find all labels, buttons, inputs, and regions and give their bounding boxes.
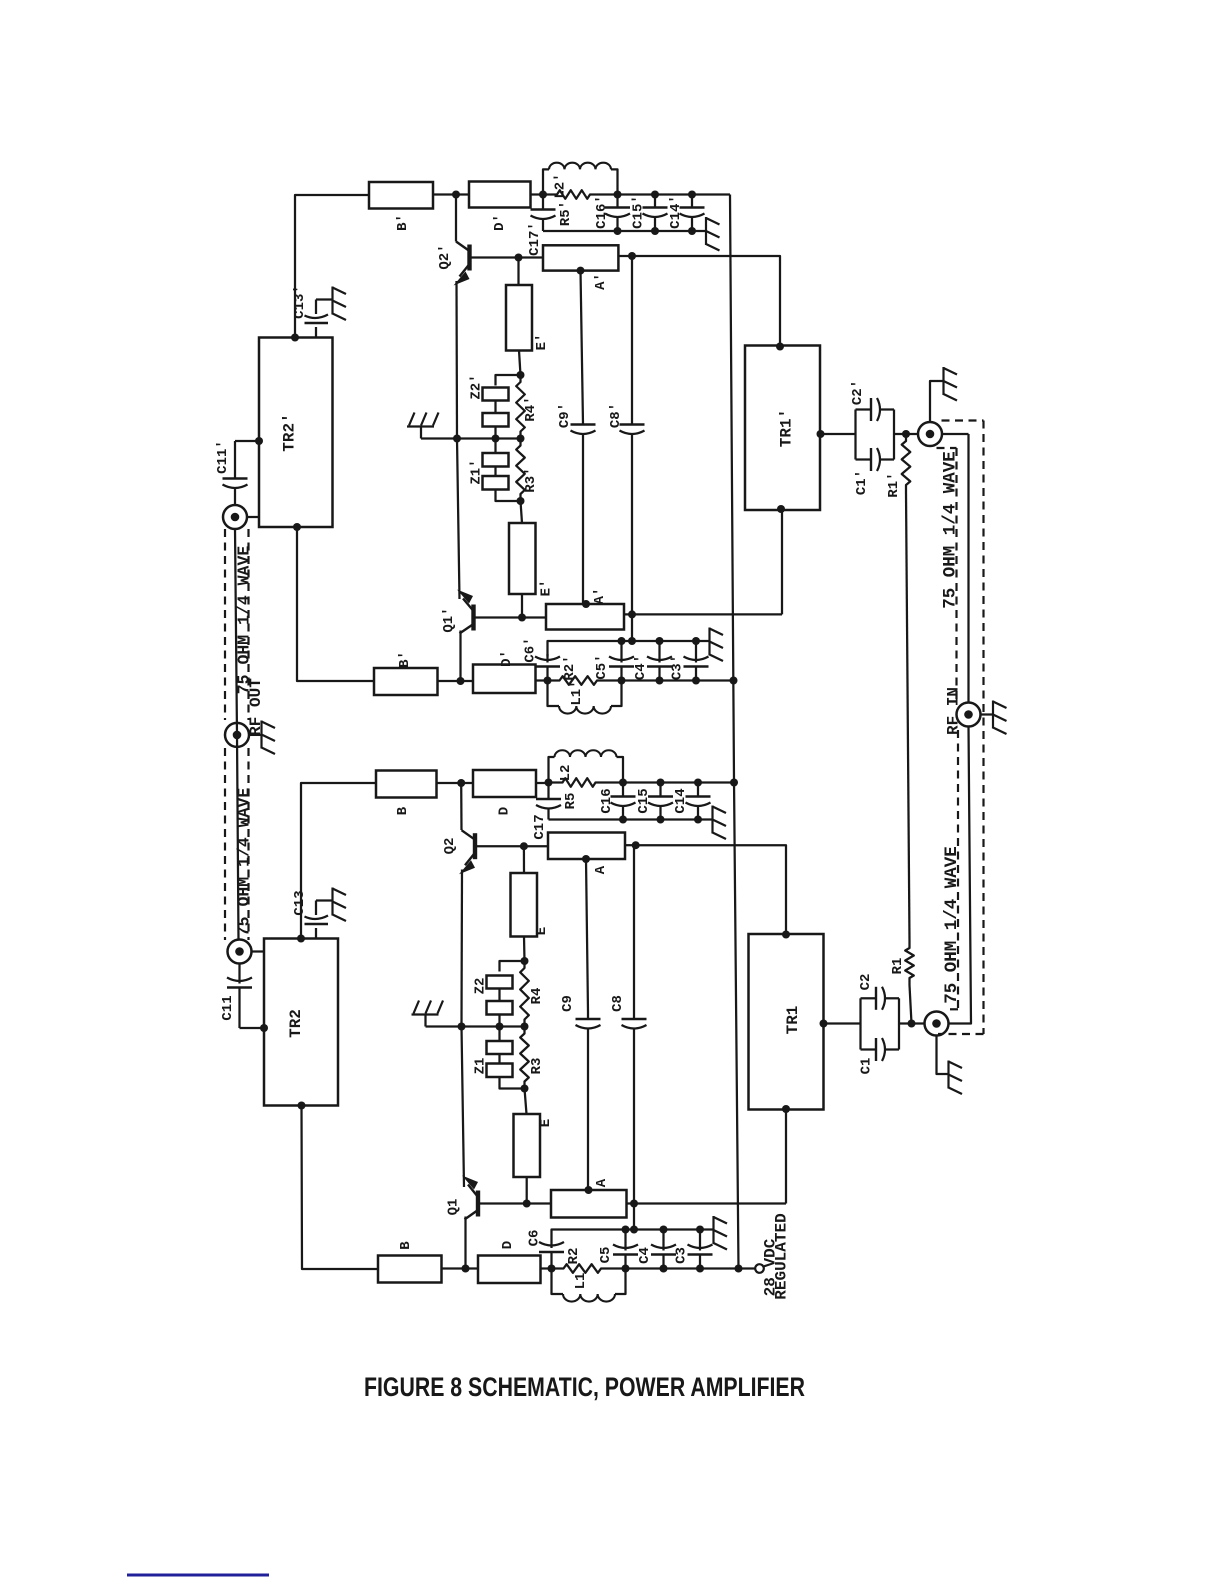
wire connector ground drop bbox=[937, 1036, 949, 1075]
junction Q2 collector tap bbox=[457, 779, 465, 787]
wire D to L2 node bbox=[536, 782, 549, 784]
capacitor C8' link bbox=[631, 256, 633, 425]
svg-text:C9: C9 bbox=[560, 995, 576, 1012]
diode Z2' (section 2) bbox=[483, 413, 509, 427]
junction Q1 base node bbox=[523, 1200, 531, 1208]
diode Z1' (section 1) bbox=[483, 453, 509, 467]
junction emitters mid rail bbox=[453, 435, 461, 443]
inductor L1' bbox=[548, 681, 560, 707]
wire connector to TR2 bbox=[251, 950, 264, 952]
wire supply rail upper bbox=[618, 193, 731, 195]
wire TR1' bottom riser bbox=[781, 510, 783, 614]
svg-text:A: A bbox=[594, 1178, 610, 1187]
capacitor C14' bbox=[691, 195, 693, 208]
junction C15 bottom bbox=[657, 816, 665, 824]
wire RF coax center upper bbox=[967, 434, 969, 703]
transistor Q2' bbox=[467, 245, 471, 271]
wire C11 to TR2 tap bbox=[240, 1027, 265, 1029]
wire B-D lower row (bottom half) bbox=[442, 1267, 479, 1269]
junction C5' bottom bbox=[618, 677, 626, 685]
wire C1/C2 right join bbox=[898, 998, 900, 1049]
wire supply rail of Q1 row (bottom) bbox=[626, 1267, 739, 1269]
wire E'(lower) to Q1' base node bbox=[521, 594, 523, 618]
wire supply rail of Q1' row bbox=[622, 679, 734, 681]
wire to RF IN line bbox=[942, 433, 969, 435]
svg-text:Q2': Q2' bbox=[437, 244, 453, 269]
svg-text:C14': C14' bbox=[668, 195, 684, 229]
junction TR1' right tap bbox=[817, 430, 825, 438]
wire Z1 branch bbox=[498, 1027, 500, 1042]
wire D(lower) to network bbox=[541, 1267, 552, 1269]
junction C9' top at A'(upper) bbox=[577, 267, 585, 275]
svg-text:D: D bbox=[500, 1241, 516, 1249]
block A (lower, bottom half) bbox=[551, 1190, 627, 1218]
capacitor C2' bbox=[854, 410, 856, 435]
wire supply to 28VDC terminal bbox=[739, 1267, 756, 1269]
wire collector drop bbox=[455, 195, 457, 242]
wire Z1' bottom link bbox=[496, 490, 521, 502]
block E (upper, bottom half) bbox=[511, 873, 538, 937]
svg-text:Q1: Q1 bbox=[446, 1199, 462, 1216]
wire Z1 bottom link bbox=[500, 1077, 525, 1089]
capacitor C1 bbox=[859, 1024, 861, 1050]
wire Z1 middle bbox=[498, 1054, 500, 1064]
block B'(upper) of Q2' row bbox=[369, 182, 433, 209]
ground of upper bank bbox=[700, 230, 706, 232]
junction TR2' top bbox=[291, 334, 299, 342]
wire Z1' branch bbox=[494, 439, 496, 454]
junction R4' top bbox=[517, 371, 525, 379]
junction Q1' base node bbox=[518, 614, 526, 622]
transformer TR1 bbox=[749, 934, 824, 1110]
svg-text:C3: C3 bbox=[674, 1247, 690, 1264]
svg-text:75 OHM 1/4 WAVE: 75 OHM 1/4 WAVE bbox=[941, 451, 961, 609]
transformer TR1' bbox=[745, 346, 820, 511]
wire emitter drop to mid rail (bottom) bbox=[460, 870, 463, 1027]
wire A(lower) right row bbox=[627, 1202, 787, 1204]
junction C16 top bbox=[619, 779, 627, 787]
ground of upper bank (bottom half) bbox=[707, 818, 713, 820]
wire RF coax center lower bbox=[949, 726, 972, 1024]
diode Z2 (section 1) bbox=[487, 976, 513, 989]
svg-text:C2: C2 bbox=[858, 974, 874, 991]
capacitor C15' bbox=[654, 195, 656, 208]
junction TR2 bottom bbox=[298, 1102, 306, 1110]
resistor R4' bbox=[516, 375, 525, 439]
resistor R3 bbox=[520, 1027, 529, 1089]
junction C16' top bbox=[614, 191, 622, 199]
block E'(upper) bbox=[506, 285, 532, 351]
wire Z2' to rail bbox=[494, 427, 496, 439]
junction ground stub on rail (bottom) bbox=[630, 1226, 638, 1234]
wire Z2' middle bbox=[494, 401, 496, 414]
junction TR2' bottom bbox=[293, 523, 301, 531]
junction C4' bottom bbox=[656, 677, 664, 685]
capacitor C13 bbox=[315, 928, 317, 939]
wire A(upper) right bbox=[625, 844, 636, 846]
diode Z2' (section 1) bbox=[483, 388, 509, 401]
svg-text:C13: C13 bbox=[292, 890, 308, 915]
svg-text:L1: L1 bbox=[573, 1273, 589, 1290]
resistor R4 bbox=[520, 961, 529, 1027]
svg-text:E: E bbox=[538, 1119, 554, 1127]
junction TR2 left edge tap bbox=[260, 1024, 268, 1032]
junction C14 bottom bbox=[694, 816, 702, 824]
connector J2 (input top) bbox=[918, 422, 942, 446]
junction A'(lower) top bbox=[582, 600, 590, 608]
junction C5 bottom bbox=[622, 1265, 630, 1273]
junction R4'/R3' mid rail bbox=[517, 435, 525, 443]
dashed coax shield inner upper bbox=[937, 447, 957, 449]
junction TR1 bottom bbox=[782, 1105, 790, 1113]
junction C4 top bbox=[660, 1226, 668, 1234]
svg-text:D': D' bbox=[499, 650, 515, 667]
junction TR1' bottom bbox=[777, 505, 785, 513]
junction supply tap Q1' row bbox=[730, 677, 738, 685]
junction C15 top bbox=[657, 779, 665, 787]
block D'(lower) bbox=[473, 665, 536, 694]
junction TR1' top bbox=[776, 343, 784, 351]
junction L2' left bbox=[539, 191, 547, 199]
junction supply at bottom rail bbox=[735, 1265, 743, 1273]
wire mid ground rail bbox=[421, 437, 521, 439]
connector RF OUT bbox=[225, 723, 249, 747]
svg-text:E': E' bbox=[539, 580, 555, 597]
junction C5' top bbox=[618, 637, 626, 645]
ground at RF IN bbox=[980, 713, 993, 715]
svg-text:C5': C5' bbox=[594, 654, 610, 679]
junction C16 bottom bbox=[619, 816, 627, 824]
svg-text:R5': R5' bbox=[558, 201, 574, 226]
wire D' to L2' node bbox=[531, 193, 544, 195]
svg-text:R3': R3' bbox=[523, 467, 539, 492]
junction C9 top at A(upper) bbox=[582, 855, 590, 863]
wire Z2 branch top bbox=[500, 961, 525, 972]
wire R3 to E(lower) bbox=[525, 1089, 527, 1115]
capacitor C3' bbox=[695, 641, 697, 663]
svg-text:B: B bbox=[398, 1241, 414, 1250]
junction emitters mid rail (bottom) bbox=[458, 1023, 466, 1031]
block A (upper row bottom half) bbox=[548, 833, 625, 860]
capacitor C2 bbox=[859, 998, 861, 1023]
svg-text:Z1: Z1 bbox=[473, 1058, 489, 1075]
transistor Q2 bbox=[473, 833, 477, 859]
wire R3' to E'(lower) bbox=[521, 501, 523, 523]
wire 28V supply line vertical bbox=[730, 195, 739, 1269]
wire ground rail upper bank bbox=[543, 230, 700, 232]
wire connector to TR2' bbox=[247, 516, 260, 518]
junction Q2' base node bbox=[515, 254, 523, 262]
svg-text:Z1': Z1' bbox=[469, 459, 485, 484]
junction C4' top bbox=[656, 637, 664, 645]
connector J1 (output top) bbox=[223, 505, 247, 529]
resistor R1' bbox=[902, 434, 911, 492]
dashed coax shield outer bbox=[942, 419, 984, 421]
capacitor C11 bbox=[238, 963, 240, 984]
wire B-D upper row (bottom half) bbox=[437, 782, 474, 784]
wire emitter line to Q1' bbox=[457, 439, 460, 600]
svg-text:B': B' bbox=[395, 214, 411, 231]
junction C3 bottom bbox=[696, 1265, 704, 1273]
wire ground rail of Q1 row (bottom) bbox=[552, 1230, 701, 1243]
wire C1'/C2' right join bbox=[893, 410, 895, 460]
wire B to TR2 riser bbox=[301, 783, 376, 939]
svg-text:R4': R4' bbox=[523, 396, 539, 421]
wire ground rail of Q1' row bbox=[548, 641, 697, 657]
wire ground stub from A' row bbox=[631, 614, 633, 641]
wire TR2 bottom to B(lower) bbox=[302, 1106, 379, 1270]
svg-text:R2: R2 bbox=[566, 1248, 582, 1265]
junction R4/R3 mid rail bbox=[521, 1023, 529, 1031]
junction R4 top bbox=[521, 957, 529, 965]
svg-text:A': A' bbox=[592, 588, 608, 605]
svg-text:R5: R5 bbox=[563, 793, 579, 810]
junction R1' node bbox=[902, 430, 910, 438]
wire TR1 bottom riser bbox=[785, 1110, 787, 1204]
capacitor C11' bbox=[234, 441, 236, 479]
junction supply line tap bbox=[730, 779, 738, 787]
svg-text:C11': C11' bbox=[215, 440, 231, 474]
svg-text:E': E' bbox=[534, 334, 550, 351]
wire B' to TR2' riser bbox=[295, 195, 369, 338]
svg-text:C5: C5 bbox=[598, 1247, 614, 1264]
capacitor C16' bbox=[616, 195, 618, 208]
svg-text:C4: C4 bbox=[637, 1247, 653, 1264]
wire TR2' bottom to B'(lower) bbox=[297, 527, 374, 681]
capacitor C1' bbox=[854, 434, 856, 460]
wire connector ground riser bbox=[930, 381, 944, 423]
wire R1 to node bbox=[910, 985, 912, 1024]
capacitor C14 bbox=[697, 783, 699, 797]
ground mid rail (bottom half) bbox=[412, 1013, 439, 1015]
svg-text:TR2: TR2 bbox=[287, 1009, 305, 1038]
junction TR2 top bbox=[297, 935, 305, 943]
junction network left bbox=[544, 677, 552, 685]
resistor R2' bbox=[548, 679, 553, 681]
svg-text:C8': C8' bbox=[608, 403, 624, 428]
wire B'-D' upper row bbox=[433, 193, 469, 195]
wire Z2' branch top bbox=[496, 375, 521, 386]
wire E'(upper) stem bbox=[517, 258, 519, 286]
junction TR2' left edge C11' tap bbox=[255, 437, 263, 445]
svg-text:R3: R3 bbox=[529, 1058, 545, 1075]
diode Z1 (section 1) bbox=[487, 1041, 513, 1054]
junction C5 top bbox=[622, 1226, 630, 1234]
block B (lower, bottom half) bbox=[378, 1256, 442, 1283]
svg-text:Q2: Q2 bbox=[442, 838, 458, 855]
capacitor C13' bbox=[315, 327, 317, 338]
ground at C13 bbox=[331, 888, 333, 916]
junction C3' top bbox=[692, 637, 700, 645]
dashed coax shield inner lower bbox=[957, 730, 959, 1009]
junction Q2' collector tap bbox=[452, 191, 460, 199]
capacitor C16 bbox=[622, 783, 624, 797]
wire E to R4 bbox=[523, 937, 526, 962]
svg-text:E: E bbox=[534, 927, 550, 935]
wire Q2' base row bbox=[470, 256, 544, 258]
wire emitter drop to mid rail bbox=[455, 281, 458, 439]
svg-text:C1: C1 bbox=[859, 1058, 875, 1075]
capacitor C3 bbox=[699, 1230, 701, 1251]
capacitor C4 bbox=[662, 1230, 664, 1251]
ground above connector J2 bbox=[942, 367, 944, 395]
svg-text:C4': C4' bbox=[633, 655, 649, 680]
wire E(upper) stem bbox=[523, 846, 525, 873]
svg-text:A: A bbox=[593, 865, 609, 874]
svg-text:D: D bbox=[497, 807, 513, 815]
block A'(upper) bbox=[543, 245, 618, 270]
wire ground stub from A row (bottom) bbox=[633, 1204, 635, 1230]
block A'(lower) bbox=[546, 604, 624, 630]
capacitor C6 bbox=[550, 1242, 552, 1248]
dashed output line left inner bbox=[247, 529, 249, 720]
resistor R5 bbox=[549, 781, 556, 783]
connector J4 (input bottom) bbox=[925, 1012, 949, 1036]
junction C16' bottom bbox=[614, 227, 622, 235]
junction C4 bottom bbox=[660, 1265, 668, 1273]
resistor R1 bbox=[905, 941, 914, 985]
svg-text:C6': C6' bbox=[523, 637, 539, 662]
junction C14 top bbox=[694, 779, 702, 787]
inductor L2' bbox=[543, 169, 549, 194]
wire Z1' middle bbox=[494, 467, 496, 477]
wire E(lower) to Q1 base node bbox=[526, 1177, 528, 1204]
wire A'(lower) right row bbox=[624, 613, 782, 615]
connector J3 (output bottom) bbox=[228, 940, 252, 964]
wire Q2 base row bbox=[475, 845, 548, 847]
junction C15' top bbox=[651, 191, 659, 199]
junction Z-chain mid rail (bottom) bbox=[496, 1023, 504, 1031]
wire emitter line to Q1 bbox=[462, 1027, 465, 1188]
capacitor C5 bbox=[624, 1230, 626, 1251]
inductor L2 bbox=[549, 757, 555, 783]
wire collector drop Q2 bbox=[460, 783, 463, 830]
junction C8 top bbox=[632, 841, 640, 849]
ground of Q1' row rail bbox=[696, 640, 710, 642]
svg-text:C6: C6 bbox=[527, 1230, 543, 1247]
transformer TR2' bbox=[259, 338, 333, 528]
wire B'-D' lower row bbox=[438, 680, 474, 682]
junction C3 top bbox=[696, 1226, 704, 1234]
terminal 28 VDC bbox=[755, 1264, 764, 1273]
wire TR1 to C1/C2 bbox=[824, 1022, 861, 1024]
svg-text:Q1': Q1' bbox=[441, 607, 457, 632]
junction TR1 top bbox=[782, 931, 790, 939]
svg-text:C15': C15' bbox=[631, 195, 647, 229]
block B'(lower) bbox=[374, 668, 438, 695]
ground below connector J4 bbox=[947, 1061, 949, 1089]
junction Q1' collector tap bbox=[457, 677, 465, 685]
junction C15' bottom bbox=[651, 227, 659, 235]
capacitor C9' link bbox=[581, 271, 584, 424]
junction C3' bottom bbox=[692, 677, 700, 685]
junction Q1 collector tap bbox=[462, 1265, 470, 1273]
wire Q1 collector drop bbox=[464, 1217, 466, 1269]
junction Q2 base node bbox=[520, 842, 528, 850]
svg-text:C3': C3' bbox=[670, 655, 686, 680]
svg-text:R4: R4 bbox=[529, 988, 545, 1005]
wire Z2 middle bbox=[498, 989, 500, 1002]
wire Z2 to rail bbox=[498, 1015, 500, 1027]
svg-text:R1': R1' bbox=[886, 472, 902, 497]
junction network left (bottom) bbox=[548, 1265, 556, 1273]
junction C14' bottom bbox=[688, 227, 696, 235]
svg-text:75 OHM 1/4 WAVE: 75 OHM 1/4 WAVE bbox=[235, 546, 254, 695]
inductor L1 bbox=[552, 1269, 564, 1295]
resistor R2 bbox=[552, 1267, 557, 1269]
junction R3 bottom bbox=[521, 1085, 529, 1093]
svg-text:TR1': TR1' bbox=[778, 409, 796, 447]
svg-text:RF IN: RF IN bbox=[945, 687, 963, 735]
block E (lower, bottom half) bbox=[514, 1114, 541, 1177]
diode Z1 (section 2) bbox=[487, 1064, 513, 1078]
wire A'(upper) right bbox=[618, 255, 632, 257]
junction L2 left bbox=[545, 779, 553, 787]
junction C14' top bbox=[688, 191, 696, 199]
capacitor C17' bbox=[542, 195, 544, 210]
wire A' row to TR1' corner bbox=[632, 256, 780, 346]
block D (upper row) bbox=[473, 770, 536, 797]
wire R1' long drop bbox=[906, 492, 910, 941]
ground at C13' bbox=[331, 287, 333, 315]
svg-text:Z2': Z2' bbox=[469, 374, 485, 399]
capacitor C8 link bbox=[633, 845, 635, 1020]
capacitor C4' bbox=[658, 641, 660, 663]
wire supply rail upper (bottom half) bbox=[623, 781, 734, 783]
svg-text:C11: C11 bbox=[220, 995, 236, 1020]
svg-text:C16: C16 bbox=[599, 788, 615, 813]
svg-text:TR2': TR2' bbox=[281, 413, 299, 451]
wire C11' tap bbox=[235, 440, 259, 442]
svg-text:R2': R2' bbox=[562, 655, 578, 680]
wire ground rail upper bank (bottom half) bbox=[549, 818, 708, 820]
blue artifact line bbox=[127, 1574, 269, 1577]
capacitor C6' bbox=[546, 654, 548, 663]
svg-text:75 OHM 1/4 WAVE: 75 OHM 1/4 WAVE bbox=[942, 846, 962, 1004]
wire Q1' collector drop bbox=[459, 631, 461, 682]
junction C8' top bbox=[628, 252, 636, 260]
capacitor C17 bbox=[547, 783, 549, 800]
transistor Q1 bbox=[476, 1191, 480, 1217]
junction TR1 right tap bbox=[820, 1020, 828, 1028]
wire E' to R4' bbox=[519, 351, 521, 376]
svg-text:C13': C13' bbox=[292, 285, 308, 319]
wire mid ground rail (bottom half) bbox=[426, 1025, 525, 1027]
svg-text:C8: C8 bbox=[610, 995, 626, 1012]
svg-text:D': D' bbox=[492, 214, 508, 231]
junction ground stub on rail bbox=[628, 637, 636, 645]
svg-text:L1': L1' bbox=[569, 680, 585, 705]
connector RF IN bbox=[957, 703, 981, 727]
svg-text:Z2: Z2 bbox=[473, 978, 489, 995]
junction Z-chain mid rail bbox=[492, 435, 500, 443]
svg-text:C14: C14 bbox=[673, 788, 689, 813]
junction C8' bottom bbox=[628, 610, 636, 618]
svg-text:C15: C15 bbox=[636, 788, 652, 813]
svg-text:C9': C9' bbox=[557, 403, 573, 428]
resistor R5' bbox=[543, 193, 550, 195]
ground mid rail bbox=[407, 425, 434, 427]
block E'(lower) bbox=[509, 523, 536, 594]
wire TR1' to C1'/C2' bbox=[821, 433, 856, 435]
svg-text:C16': C16' bbox=[594, 195, 610, 229]
svg-text:R1: R1 bbox=[890, 958, 906, 975]
dashed output line left outer bbox=[224, 529, 226, 720]
junction C8 bottom bbox=[630, 1200, 638, 1208]
ground of Q1 row rail (bottom) bbox=[700, 1228, 714, 1230]
wire RF OUT center conductor bbox=[235, 529, 239, 941]
svg-text:B: B bbox=[395, 806, 411, 815]
